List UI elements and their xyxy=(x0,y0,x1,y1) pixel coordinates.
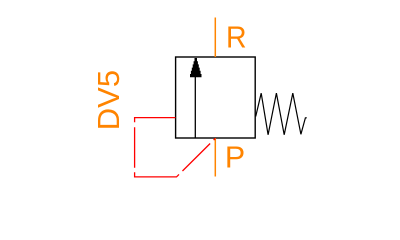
svg-text:R: R xyxy=(226,21,247,55)
port line R xyxy=(214,18,216,58)
port line P xyxy=(214,138,216,177)
pilot line end tick at P junction xyxy=(214,138,216,140)
flow arrow head (stepped) xyxy=(190,58,202,77)
spring xyxy=(256,93,307,135)
pilot line (red dashed) xyxy=(135,118,216,177)
flow arrow stem xyxy=(194,77,196,138)
svg-text:P: P xyxy=(225,139,245,174)
svg-text:DV5: DV5 xyxy=(91,70,126,130)
valve body DV5 (square) xyxy=(176,57,256,138)
